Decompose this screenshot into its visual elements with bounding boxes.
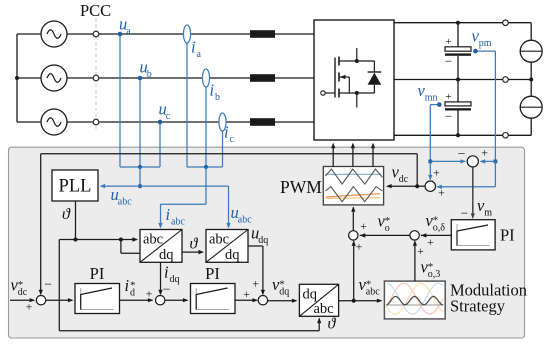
svg-text:*: * [366,279,372,291]
wire: v_o* [360,234,410,236]
svg-text:*: * [385,215,391,227]
svg-text:PI: PI [500,226,515,245]
svg-text:+: + [445,36,451,48]
wire: i_dq [160,262,162,294]
AC source phase c [41,109,67,135]
wire: PI2 out [235,299,257,301]
svg-text:PWM: PWM [280,177,322,197]
inductor filter [250,118,275,126]
svg-text:m: m [484,208,492,219]
svg-text:c: c [166,111,171,122]
wire: theta to abc/dq1 [76,239,137,241]
converter box [314,20,394,140]
summing junction d-axis [156,296,165,305]
wire: sum to dq/abc [268,300,296,302]
summing junction o-delta [410,231,419,240]
wire: v*_abc up to sum [353,242,355,301]
diode antiparallel [373,61,375,72]
svg-text:PI: PI [205,264,220,283]
svg-text:−: − [445,54,452,69]
transform abc/dq (current) [140,230,182,263]
wire: phase c [67,121,314,123]
current source upper [520,40,542,62]
summing junction v_dc [425,181,435,191]
svg-text:c: c [230,134,235,145]
svg-text:i: i [210,81,215,100]
svg-text:*: * [130,280,136,292]
wire: u_dq [248,245,263,247]
svg-text:dc: dc [399,174,409,185]
svg-text:+: + [356,240,363,254]
wire: theta to abc/dq2 [182,251,203,253]
svg-text:abc: abc [314,301,334,317]
wire: v_pm into sum [494,160,498,164]
svg-text:i: i [125,276,130,295]
wire: v_dc feedback [417,185,425,187]
node: DC terminal [503,77,509,83]
svg-text:ϑ: ϑ [328,316,337,333]
wire: phase a [67,33,314,35]
svg-text:+: + [438,185,445,199]
svg-text:+: + [427,235,434,249]
capacitor upper DC link [457,23,459,47]
svg-text:+: + [26,300,33,314]
svg-text:PLL: PLL [59,177,92,197]
wire: v_mn into dc sum [429,161,431,179]
svg-text:+: + [445,91,451,103]
svg-text:ϑ: ϑ [190,236,199,253]
transistor MOSFET [321,91,325,95]
svg-text:dq: dq [159,247,174,263]
PI controller 2 [191,284,236,314]
svg-text:Strategy: Strategy [450,297,506,316]
node v_pm measurement [475,50,495,52]
wires: gate signals [332,144,334,166]
svg-text:*: * [279,279,285,291]
svg-text:dq: dq [258,235,268,246]
svg-text:+: + [243,287,250,301]
inductor filter [250,74,275,82]
node PCC dashed line [95,18,97,132]
svg-text:+: + [433,165,440,179]
svg-text:dq: dq [170,274,180,285]
svg-text:*: * [18,279,24,291]
wire: phase b [67,77,314,79]
svg-text:+: + [360,219,367,233]
wire: load branch [530,23,532,41]
node: PCC terminal [93,31,99,37]
node: PCC terminal [93,75,99,81]
svg-text:−: − [44,277,52,292]
wire: DC- rail [394,134,531,136]
wire: v*_abc [339,300,381,302]
wire: v_mn into sum [428,160,432,164]
wire: PI1 out [120,299,153,301]
wire: source bus [16,34,18,122]
svg-text:b: b [147,69,152,80]
wire: v_m to PI [472,167,474,218]
node: bus junction [15,76,19,80]
node u_b measurement [139,78,141,167]
node: PCC terminal [93,119,99,125]
current source lower [520,96,542,118]
svg-text:mn: mn [425,93,438,104]
summing junction v_o [349,231,358,240]
node v_mn measurement [430,104,439,106]
control panel background [9,147,525,338]
wire: theta bus [59,239,75,241]
transform abc/dq (voltage) [206,230,248,263]
svg-text:−: − [458,146,466,161]
wire: DC+ rail [394,22,531,24]
node: DC terminal [503,20,509,26]
current sensor i_b [205,87,207,167]
capacitor lower DC link [457,80,459,102]
wire: sum to PI1 [46,299,72,301]
svg-text:+: + [481,145,488,159]
AC source phase b [41,65,67,91]
wire: u_abc to PLL [101,185,140,187]
svg-text:+: + [146,287,153,301]
inductor filter [250,30,275,38]
wire: v*_o3 up [414,242,416,282]
wire: i bus [187,166,223,168]
svg-text:abc: abc [171,217,185,228]
PWM box [323,167,383,205]
PI controller 3 (balancing) [451,220,495,250]
AC source phase a [41,21,67,47]
svg-text:i: i [224,123,229,142]
svg-text:a: a [197,49,202,60]
svg-text:ϑ: ϑ [62,206,71,223]
svg-text:i: i [191,38,196,57]
PLL box [52,170,98,201]
wire: u bus [120,166,160,168]
svg-text:dq: dq [225,247,240,263]
svg-text:PI: PI [90,264,105,283]
svg-text:a: a [126,26,131,37]
svg-text:abc: abc [118,197,132,208]
current sensor i_c [222,131,224,167]
wire: DC mid rail [394,79,531,81]
wire: sum up to PWM [352,208,354,231]
modulation strategy box [384,281,445,319]
wire: v_pm into dc sum [494,161,496,186]
svg-text:pm: pm [479,38,492,49]
svg-text:−: − [460,205,468,220]
svg-text:i: i [166,205,171,224]
node: DC terminal [503,133,509,139]
node u_c measurement [159,122,161,167]
svg-text:PCC: PCC [80,1,111,20]
svg-text:*: * [433,215,439,227]
node u_a measurement [119,34,121,167]
svg-text:abc: abc [209,232,229,248]
svg-text:−: − [445,109,452,124]
current sensor i_a [186,43,188,167]
transform dq/abc [299,284,338,316]
svg-text:i: i [164,263,169,282]
summing junction v_m [467,156,478,167]
wire: sum to PI2 [165,299,187,301]
wire: PI3 out [421,234,452,236]
svg-text:−: − [163,281,171,296]
wire: theta from PLL [75,201,77,240]
svg-text:+: + [252,277,259,291]
svg-text:+: + [417,244,424,258]
svg-text:b: b [215,92,220,103]
svg-text:abc: abc [143,232,163,248]
summing junction q [258,296,267,305]
summing junction dc [36,296,45,305]
PI controller 1 [75,284,120,314]
wire: u_abc to abc/dq2 [140,185,229,187]
svg-text:*: * [428,261,434,273]
wire: v*_dc input [10,299,34,301]
